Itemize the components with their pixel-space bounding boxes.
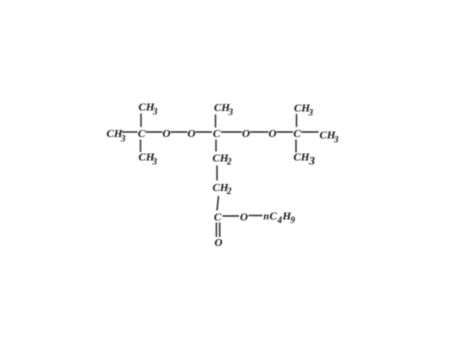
wire C3 down to CH3 [295, 140, 297, 153]
svg-text:C: C [270, 211, 278, 223]
svg-text:CH: CH [294, 152, 310, 164]
svg-text:3: 3 [308, 154, 315, 168]
svg-text:2: 2 [226, 186, 232, 196]
wire C3-CH3 right [301, 131, 319, 133]
svg-text:9: 9 [291, 215, 296, 225]
wire C4-O5 [223, 215, 240, 217]
wire CH3-C1 [122, 131, 138, 133]
svg-text:O: O [215, 237, 223, 249]
svg-text:2: 2 [226, 157, 232, 167]
wire C2-O3 [221, 131, 242, 133]
svg-text:3: 3 [152, 157, 158, 167]
wire O2-C2 [196, 131, 213, 133]
CH3 bottom-right label [294, 152, 316, 168]
double bond C4=O6 [215, 223, 217, 238]
svg-text:O: O [269, 128, 277, 140]
svg-text:O: O [242, 128, 250, 140]
wire O4-C3 [277, 131, 294, 133]
wire O3-O4 [250, 131, 269, 133]
CH2 label (first methylene) [213, 152, 233, 166]
svg-text:3: 3 [120, 134, 126, 144]
svg-text:O: O [188, 128, 196, 140]
CH3 label above right tert-butyl C [294, 103, 314, 118]
svg-text:C: C [213, 128, 221, 140]
wire C2 up to CH3 [215, 115, 217, 128]
CH3 bottom-left label [139, 152, 158, 167]
wire O5 to butyl group [249, 215, 263, 217]
svg-text:3: 3 [308, 108, 314, 118]
wire C1 down to CH3 [140, 140, 142, 153]
CH2 label (second methylene) [213, 182, 233, 196]
svg-text:O: O [163, 128, 171, 140]
svg-text:3: 3 [228, 107, 234, 117]
wire C2 down to CH2 [215, 140, 217, 152]
svg-text:3: 3 [333, 134, 339, 144]
wire C1 up to CH3 [140, 114, 142, 128]
CH3 label above central carbon [214, 102, 234, 117]
wire CH2-CH2 [216, 166, 218, 181]
svg-text:C: C [138, 128, 146, 140]
wire CH2 down to carbonyl C [217, 196, 219, 211]
svg-text:3: 3 [152, 107, 158, 117]
n-C4H9 butyl label [264, 211, 296, 225]
wire C3 up to CH3 [296, 114, 298, 127]
svg-text:C: C [293, 128, 301, 140]
CH3 left label [107, 128, 127, 144]
wire C1-O1 [146, 131, 163, 133]
svg-text:C: C [214, 212, 222, 224]
svg-text:O: O [240, 212, 248, 224]
wire O1-O2 [171, 131, 188, 133]
CH3 top-left label [139, 102, 159, 117]
CH3 right label [320, 130, 340, 145]
